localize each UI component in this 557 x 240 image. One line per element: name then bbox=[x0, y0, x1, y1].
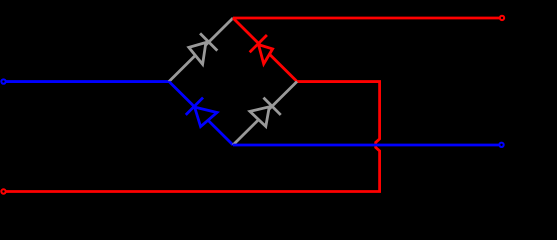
wire: red positive output, node T to top-right terminal bbox=[233, 17, 501, 20]
wire: blue output, node B to right terminal bbox=[233, 144, 500, 147]
terminal: DC - output, right (blue) bbox=[499, 143, 503, 147]
wire: red branch, node T to node R bbox=[233, 18, 297, 82]
wire: blue branch, node L to node B bbox=[169, 82, 233, 145]
terminal: AC input, left (blue) bbox=[1, 79, 5, 83]
wire: gray branch, node B to node R bbox=[233, 82, 297, 145]
terminal: AC input, bottom-left (red) bbox=[1, 189, 5, 193]
diode D4 (lower-right branch, not conducting) bbox=[250, 98, 281, 127]
diode D1 (upper-left branch, not conducting) bbox=[189, 33, 218, 64]
wire: red return path from node R right, down (hops left over blue wire), then left to bottom AC terminal bbox=[6, 82, 380, 192]
diode D3 (lower-left branch, conducting) bbox=[186, 98, 217, 127]
wire: blue AC input from left terminal to node L bbox=[5, 80, 170, 83]
wire: gray branch, node L to node T bbox=[169, 18, 233, 82]
terminal: DC + output, top-right (red) bbox=[500, 16, 504, 20]
diode D2 (upper-right branch, conducting) bbox=[250, 35, 273, 64]
